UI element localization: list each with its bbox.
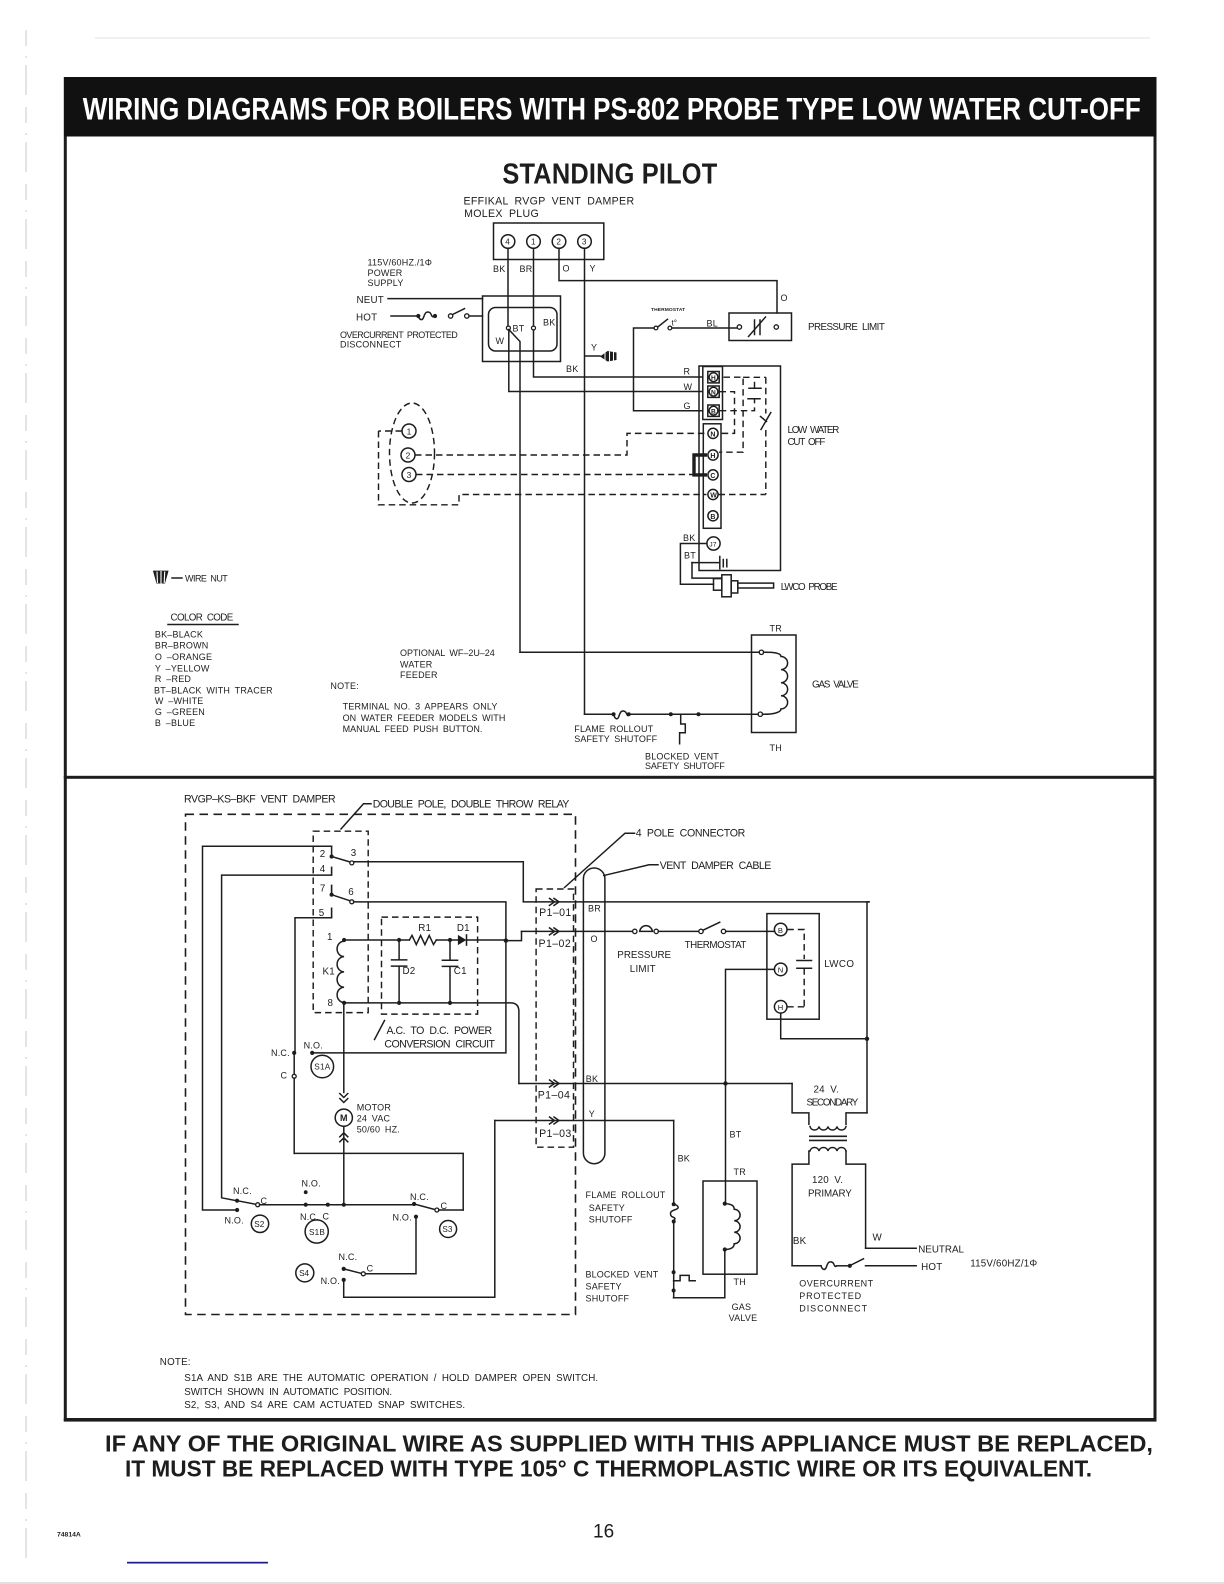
svg-text:J7: J7 (709, 542, 716, 549)
gas valve coil (upper) (763, 652, 788, 714)
svg-text:3: 3 (582, 238, 587, 247)
gas valve coil terminals (723, 1202, 727, 1206)
terminal W2 (708, 489, 718, 499)
dashed ellipse connector (390, 403, 435, 503)
molex pin 4 (501, 235, 515, 249)
dashed wire pin3 to terminal C (416, 474, 694, 476)
thermostat switch (upper) (654, 326, 658, 330)
svg-text:G: G (684, 401, 691, 411)
junction BT x BK (723, 1081, 727, 1085)
wire S3 NO down to S4 C (365, 1217, 416, 1274)
wire pin4 to S2 NC (222, 875, 332, 1201)
svg-text:BLOCKED VENT: BLOCKED VENT (586, 1269, 659, 1279)
svg-text:W: W (496, 336, 505, 346)
svg-text:SHUTOFF: SHUTOFF (586, 1293, 630, 1303)
svg-text:VENT DAMPER CABLE: VENT DAMPER CABLE (660, 860, 772, 872)
svg-text:1: 1 (531, 238, 536, 247)
svg-text:R1: R1 (418, 923, 431, 934)
svg-text:O: O (781, 293, 788, 303)
svg-text:DISCONNECT: DISCONNECT (340, 340, 402, 350)
wire molex pin1 BR down to junction (533, 248, 535, 326)
svg-text:S3: S3 (442, 1225, 452, 1234)
LWCO terminal B (774, 923, 787, 936)
svg-text:N.O.: N.O. (321, 1276, 340, 1286)
svg-text:BT: BT (684, 551, 696, 561)
junction box outer (483, 296, 561, 362)
LWCO terminal H (774, 1001, 787, 1014)
primary winding (810, 1148, 846, 1151)
motor M (335, 1109, 352, 1126)
svg-text:A.C. TO D.C. POWER: A.C. TO D.C. POWER (387, 1025, 493, 1037)
svg-text:BR: BR (588, 904, 601, 914)
capacitor at probe (692, 557, 727, 569)
svg-text:P1–04: P1–04 (538, 1090, 571, 1102)
svg-text:B –BLUE: B –BLUE (155, 718, 195, 728)
svg-text:C: C (367, 1263, 374, 1273)
gas valve TH terminal (758, 712, 762, 716)
ellipse pin 3 (402, 468, 416, 482)
terminal H (square) (708, 372, 719, 383)
P1-04 arrow (550, 1080, 560, 1087)
svg-text:P1–01: P1–01 (539, 907, 572, 919)
svg-text:IT MUST BE REPLACED WITH TYPE: IT MUST BE REPLACED WITH TYPE 105° C THE… (125, 1456, 1092, 1482)
svg-text:DOUBLE POLE, DOUBLE THROW RELA: DOUBLE POLE, DOUBLE THROW RELAY (373, 799, 570, 811)
title bar (64, 77, 1157, 137)
svg-text:3: 3 (351, 848, 357, 859)
flame rollout sensor (lower) (670, 1204, 678, 1219)
svg-text:N.O.: N.O. (302, 1179, 321, 1189)
svg-text:B: B (710, 514, 715, 521)
svg-text:S4: S4 (299, 1269, 309, 1278)
svg-text:O: O (591, 934, 598, 944)
svg-text:t°: t° (672, 319, 677, 328)
leader to relay box (341, 804, 371, 829)
wire to blocked vent (lower) (673, 1222, 675, 1298)
svg-text:NOTE:: NOTE: (330, 681, 359, 691)
LWCO terminal N (774, 963, 787, 976)
svg-text:FLAME ROLLOUT: FLAME ROLLOUT (586, 1190, 666, 1200)
svg-text:3: 3 (407, 470, 412, 480)
svg-text:B: B (778, 926, 783, 935)
svg-text:SWITCH SHOWN IN AUTOMATIC POSI: SWITCH SHOWN IN AUTOMATIC POSITION. (184, 1387, 392, 1398)
svg-text:74814A: 74814A (57, 1532, 81, 1539)
svg-text:HOT: HOT (356, 313, 377, 324)
svg-text:24 V.: 24 V. (814, 1085, 839, 1096)
svg-text:SAFETY SHUTOFF: SAFETY SHUTOFF (574, 734, 657, 744)
svg-text:BK: BK (586, 1074, 598, 1084)
svg-text:RVGP–KS–BKF VENT DAMPER: RVGP–KS–BKF VENT DAMPER (184, 794, 336, 806)
svg-text:1: 1 (407, 426, 412, 436)
svg-text:CUT OFF: CUT OFF (788, 437, 826, 448)
svg-text:LWCO PROBE: LWCO PROBE (781, 582, 838, 593)
svg-text:16: 16 (593, 1522, 614, 1543)
svg-text:8: 8 (328, 998, 334, 1009)
svg-text:C1: C1 (454, 966, 467, 977)
outer frame right border (1154, 137, 1157, 1422)
terminal J7 (707, 537, 720, 550)
wire D1 to junction (467, 939, 506, 941)
svg-text:MOLEX PLUG: MOLEX PLUG (464, 208, 539, 220)
svg-text:TERMINAL NO. 3 APPEARS ONLY: TERMINAL NO. 3 APPEARS ONLY (343, 702, 498, 712)
svg-text:IF ANY OF THE ORIGINAL WIRE AS: IF ANY OF THE ORIGINAL WIRE AS SUPPLIED … (105, 1431, 1153, 1457)
leader 4 pole connector (565, 833, 635, 887)
svg-text:BK: BK (566, 364, 578, 374)
terminal strip upper group box (703, 367, 723, 420)
wire pressure limit to thermostat (658, 930, 698, 932)
pressure limit (lower) (633, 929, 637, 933)
svg-text:BK: BK (793, 1236, 807, 1247)
leader to AC DC label (375, 1021, 385, 1040)
svg-text:GAS VALVE: GAS VALVE (812, 680, 859, 691)
diode D1 (458, 935, 466, 945)
svg-text:VALVE: VALVE (729, 1313, 758, 1323)
svg-text:BT–BLACK WITH TRACER: BT–BLACK WITH TRACER (154, 685, 273, 695)
LWCO probe rod (738, 583, 774, 588)
blue underline mark (127, 1562, 268, 1564)
svg-text:Y: Y (590, 264, 596, 274)
wire HOT with breaker and disconnect (792, 1265, 821, 1267)
svg-text:120 V.: 120 V. (812, 1175, 843, 1186)
terminal N (square) (708, 386, 719, 397)
junction node BT (506, 326, 510, 330)
svg-text:2: 2 (556, 238, 561, 247)
wire LWCO H to transformer node (781, 1013, 867, 1039)
svg-text:WIRE NUT: WIRE NUT (185, 574, 228, 584)
svg-text:PRESSURE: PRESSURE (617, 950, 671, 961)
wire O from molex pin2 to pressure limit (559, 248, 777, 313)
svg-text:P1–03: P1–03 (539, 1128, 572, 1140)
outer frame bottom border (64, 1418, 1157, 1422)
junction pin6/P1-02 (504, 938, 508, 942)
LWCO internal switch (765, 377, 767, 413)
svg-text:D1: D1 (457, 923, 470, 934)
svg-text:S2, S3, AND S4 ARE CAM ACTUATE: S2, S3, AND S4 ARE CAM ACTUATED SNAP SWI… (184, 1400, 465, 1411)
svg-text:24 VAC: 24 VAC (357, 1114, 391, 1124)
wire P1-04 BK to transformer (519, 1083, 792, 1085)
wire pin2 to S2 NO (203, 846, 332, 1210)
wire jog to P1-02 (506, 931, 522, 940)
svg-text:NOTE:: NOTE: (160, 1357, 191, 1368)
svg-text:H: H (711, 375, 716, 382)
terminal H2 (708, 450, 718, 460)
wire BT to probe top (692, 563, 722, 579)
wire LWCO N to BT (726, 969, 775, 1203)
capacitor D2 (392, 940, 407, 1003)
dashed wire pin2 to terminal N2 (415, 433, 707, 455)
wire pin6 down to S1A NO rail (312, 902, 506, 1053)
vent damper cable outline (583, 868, 605, 1164)
dashed link B to capacitor to top (720, 400, 755, 411)
svg-text:2: 2 (320, 849, 326, 860)
gas valve TR terminal (759, 650, 763, 654)
svg-text:R –RED: R –RED (155, 674, 192, 684)
svg-text:P1–02: P1–02 (539, 938, 572, 950)
svg-text:O: O (563, 264, 570, 274)
vent damper dashed enclosure (186, 814, 576, 1314)
dashed wire pin1 stub left (379, 430, 403, 432)
wire Y to flame rollout sensor (585, 713, 613, 715)
svg-text:G –GREEN: G –GREEN (155, 707, 205, 717)
terminal B2 (708, 511, 718, 521)
svg-text:EFFIKAL RVGP VENT DAMPER: EFFIKAL RVGP VENT DAMPER (464, 195, 635, 207)
svg-text:O –ORANGE: O –ORANGE (155, 652, 212, 662)
P1-01 arrow (550, 898, 560, 905)
120V primary enclosure (792, 1151, 809, 1266)
wire nut symbol on Y wire (600, 351, 617, 362)
svg-text:SAFETY: SAFETY (589, 1203, 625, 1213)
svg-text:W: W (873, 1233, 883, 1244)
wire BR down right side to transformer (867, 902, 869, 1113)
svg-text:NEUT: NEUT (357, 295, 384, 306)
wire nut legend symbol (153, 571, 169, 584)
svg-text:FEEDER: FEEDER (400, 670, 438, 680)
terminal N2 (708, 428, 718, 438)
svg-text:K1: K1 (323, 967, 335, 978)
relay contact blade 2-3 (332, 857, 350, 862)
svg-text:S1A: S1A (314, 1063, 330, 1072)
junction box inner rounded (489, 308, 558, 352)
svg-text:N.O.: N.O. (225, 1216, 244, 1226)
svg-text:WIRING DIAGRAMS FOR BOILERS WI: WIRING DIAGRAMS FOR BOILERS WITH PS-802 … (83, 91, 1141, 127)
LWCO internal dashed with probe capacitor (787, 930, 804, 960)
wire pin5 to S1A NC (295, 918, 332, 1051)
svg-text:D2: D2 (403, 966, 416, 977)
wire pin3 to P1-01 (354, 862, 524, 901)
gas valve coil (lower) (725, 1204, 740, 1250)
page bottom scan line (0, 1582, 1224, 1584)
terminal C (708, 470, 718, 480)
LWCO probe body (722, 575, 731, 597)
svg-text:115V/60HZ/1Φ: 115V/60HZ/1Φ (970, 1259, 1037, 1270)
molex pin 3 (578, 235, 592, 249)
svg-text:M: M (340, 1113, 348, 1123)
svg-text:W: W (710, 493, 717, 500)
svg-text:BT: BT (730, 1130, 742, 1140)
svg-text:PRIMARY: PRIMARY (808, 1189, 852, 1200)
svg-text:N.O.: N.O. (393, 1213, 412, 1223)
relay contact blade 7-6 (332, 895, 350, 901)
wire NEUTRAL (866, 1247, 917, 1249)
svg-text:C: C (710, 473, 715, 480)
svg-text:BK: BK (683, 533, 695, 543)
page top scan line (95, 37, 1150, 39)
svg-text:N.O.: N.O. (304, 1041, 323, 1051)
wire motor bottom to S1B rail (343, 1126, 345, 1204)
junction node BK (532, 326, 536, 330)
flame rollout sensor (upper) (614, 711, 629, 719)
svg-text:WATER: WATER (400, 659, 433, 669)
relay coil K1 (342, 938, 346, 942)
wire W from junction down to terminal N (509, 330, 703, 392)
svg-text:MANUAL FEED PUSH BUTTON.: MANUAL FEED PUSH BUTTON. (343, 724, 483, 734)
wire hot with overcurrent breaker and disconnect switch (391, 315, 417, 317)
motor arrows in (340, 1094, 348, 1103)
wire thermostat to LWCO B (726, 930, 775, 932)
svg-text:Y –YELLOW: Y –YELLOW (155, 663, 210, 673)
svg-text:STANDING PILOT: STANDING PILOT (502, 159, 717, 191)
thick jumper H2 to C (694, 455, 707, 475)
transformer core (809, 1136, 847, 1140)
svg-text:LIMIT: LIMIT (630, 964, 656, 975)
P1-03 arrow (550, 1117, 560, 1124)
wire P1-03 Y to flame rollout (495, 1120, 674, 1122)
svg-text:6: 6 (348, 887, 354, 898)
svg-text:C: C (281, 1071, 288, 1081)
ellipse pin 1 (402, 424, 416, 438)
svg-text:DISCONNECT: DISCONNECT (799, 1304, 867, 1314)
resistor R1 (409, 935, 436, 944)
wire motor top from pin8 rail (343, 1003, 345, 1093)
motor rail S1A-C to S3-C (294, 1153, 463, 1210)
svg-text:SUPPLY: SUPPLY (368, 278, 404, 288)
capacitor C1 (442, 940, 457, 1003)
svg-text:POWER: POWER (368, 268, 403, 278)
wire molex pin4 BK down to junction (507, 248, 509, 326)
dashed wire down and around to terminal W2 (379, 431, 707, 505)
svg-text:Y: Y (591, 343, 597, 353)
svg-text:S2: S2 (254, 1220, 264, 1229)
svg-text:HOT: HOT (921, 1262, 942, 1273)
svg-text:Y: Y (589, 1109, 595, 1119)
S1B rail from S2 C to S3 NC (260, 1204, 415, 1206)
wire S4 NO to P1-03 riser (344, 1121, 495, 1298)
dashed link H to H2 (719, 377, 743, 452)
svg-text:OVERCURRENT: OVERCURRENT (799, 1279, 873, 1289)
secondary winding (810, 1127, 846, 1130)
svg-text:LOW WATER: LOW WATER (788, 425, 840, 436)
AC to DC dashed box (382, 917, 478, 1014)
svg-text:CONVERSION CIRCUIT: CONVERSION CIRCUIT (384, 1038, 495, 1050)
svg-text:MOTOR: MOTOR (357, 1103, 392, 1113)
svg-text:N.C.: N.C. (233, 1186, 252, 1196)
wire BK/R from junction down to terminal H (534, 330, 703, 377)
svg-text:B: B (711, 409, 716, 416)
svg-text:2: 2 (406, 450, 411, 460)
svg-text:GAS: GAS (732, 1302, 752, 1312)
leader vent damper cable (604, 865, 658, 876)
svg-text:BK: BK (543, 318, 555, 328)
svg-text:OPTIONAL WF–2U–24: OPTIONAL WF–2U–24 (400, 648, 495, 658)
ellipse pin 2 (401, 448, 415, 462)
svg-text:COLOR CODE: COLOR CODE (171, 613, 234, 624)
svg-text:S1B: S1B (309, 1228, 325, 1237)
svg-text:SAFETY: SAFETY (586, 1281, 622, 1291)
wire thermostat to pressure limit BL (672, 327, 737, 329)
svg-text:R: R (684, 367, 691, 377)
blocked vent element (upper) (680, 714, 686, 743)
svg-text:PRESSURE LIMIT: PRESSURE LIMIT (808, 322, 885, 333)
svg-text:SHUTOFF: SHUTOFF (589, 1214, 633, 1224)
svg-text:N.C.: N.C. (339, 1252, 358, 1262)
svg-text:N: N (711, 390, 716, 397)
wire to blocked vent and TH (629, 713, 758, 715)
svg-text:BR–BROWN: BR–BROWN (155, 641, 209, 651)
svg-text:NEUTRAL: NEUTRAL (918, 1245, 964, 1256)
wire to D1 (436, 939, 458, 941)
wire BK J7 to probe (680, 544, 713, 585)
thermostat (lower) (699, 929, 703, 933)
molex pin 2 (552, 235, 566, 249)
blocked vent element (lower) (674, 1275, 696, 1280)
svg-text:TH: TH (734, 1277, 746, 1287)
svg-text:ON WATER FEEDER MODELS WITH: ON WATER FEEDER MODELS WITH (343, 713, 506, 723)
gas valve box (lower) (703, 1181, 757, 1274)
wire G thermostat down to terminal B (634, 328, 703, 411)
capacitor plates in LWCO (748, 388, 761, 399)
wire Y down through flame rollout (lower) (673, 1121, 675, 1203)
molex pin 1 (527, 235, 541, 249)
svg-text:4 POLE CONNECTOR: 4 POLE CONNECTOR (636, 828, 746, 840)
svg-text:S1A AND S1B ARE THE AUTOMATIC: S1A AND S1B ARE THE AUTOMATIC OPERATION … (184, 1373, 598, 1384)
wire gas valve TH to blocked vent chain (674, 1251, 725, 1297)
svg-text:BT: BT (513, 324, 525, 334)
svg-text:C: C (323, 1212, 330, 1222)
svg-text:LWCO: LWCO (824, 959, 854, 970)
wire P1-01 BR (523, 901, 869, 903)
wire Y from molex pin3 down (585, 248, 601, 714)
svg-text:SECONDARY: SECONDARY (807, 1098, 859, 1109)
low water cut off outer box (699, 366, 781, 571)
svg-text:H: H (710, 453, 715, 460)
transformer 24V secondary enclosure (792, 1084, 809, 1125)
svg-text:W: W (684, 382, 693, 392)
svg-text:1: 1 (327, 932, 333, 943)
svg-text:N.C.: N.C. (271, 1048, 290, 1058)
svg-text:7: 7 (320, 884, 326, 895)
svg-text:115V/60HZ./1Φ: 115V/60HZ./1Φ (368, 258, 433, 268)
wire pin1 top rail (344, 939, 409, 941)
svg-text:BK: BK (493, 264, 505, 274)
relay dashed box (313, 831, 368, 1012)
page left edge scan artifact (25, 30, 27, 1560)
pressure limit box (upper) (729, 313, 792, 341)
molex plug box (494, 223, 604, 260)
svg-text:4: 4 (505, 238, 510, 247)
svg-text:50/60 HZ.: 50/60 HZ. (357, 1125, 400, 1135)
svg-text:SAFETY SHUTOFF: SAFETY SHUTOFF (645, 761, 725, 771)
svg-text:H: H (778, 1003, 783, 1012)
wire to gas valve TR (520, 651, 759, 653)
svg-text:THERMOSTAT: THERMOSTAT (685, 940, 747, 951)
outer frame left border (64, 137, 67, 1422)
wire S1A C down to motor rail (293, 1078, 295, 1153)
svg-text:N: N (778, 966, 783, 975)
svg-text:N: N (710, 431, 715, 438)
svg-text:N.C.: N.C. (410, 1192, 429, 1202)
svg-text:BK: BK (678, 1154, 690, 1164)
svg-text:THERMOSTAT: THERMOSTAT (651, 307, 685, 313)
svg-text:OVERCURRENT PROTECTED: OVERCURRENT PROTECTED (340, 330, 458, 340)
svg-text:BR: BR (520, 264, 533, 274)
svg-text:4: 4 (320, 864, 326, 875)
dashed link N to N2 (719, 392, 735, 434)
LWCO box (lower) (767, 914, 819, 1020)
wire neutral to junction box (388, 298, 483, 300)
motor arrows bottom (340, 1133, 348, 1142)
svg-text:FLAME ROLLOUT: FLAME ROLLOUT (574, 724, 653, 734)
P1-02 arrow (550, 928, 560, 935)
4 pole connector dashed box (536, 889, 573, 1147)
terminal B (square) (708, 405, 719, 416)
gas valve box (upper) (752, 635, 797, 733)
svg-text:W –WHITE: W –WHITE (155, 696, 204, 706)
wire BT from junction down to gas valve TR (509, 330, 520, 653)
svg-text:TR: TR (770, 624, 783, 634)
terminal strip lower group box (703, 424, 721, 529)
wire pin8 bottom rail to P1-04 (344, 1003, 519, 1084)
svg-text:BL: BL (707, 319, 718, 329)
svg-text:BK–BLACK: BK–BLACK (155, 630, 203, 640)
